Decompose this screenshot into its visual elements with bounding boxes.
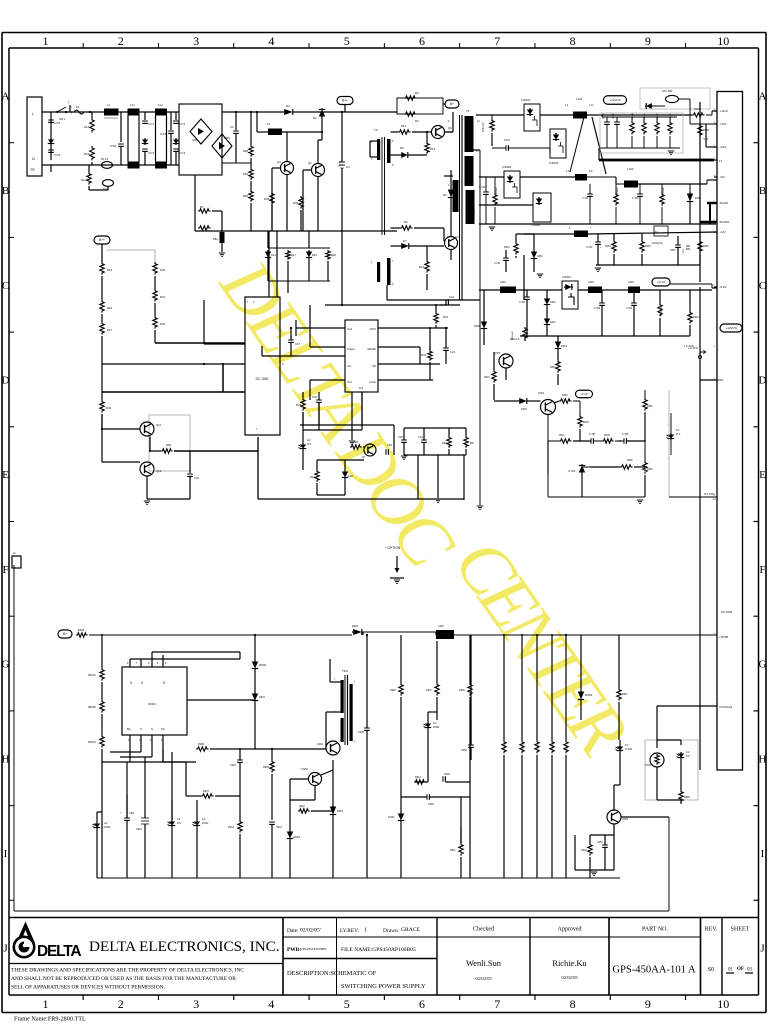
- svg-text:S0: S0: [708, 967, 714, 973]
- svg-text:R10: R10: [419, 265, 425, 269]
- svg-text:1: 1: [364, 928, 367, 934]
- svg-text:C 303: C 303: [594, 308, 601, 310]
- svg-text:R253: R253: [645, 245, 651, 248]
- svg-text:B: B: [2, 185, 9, 197]
- svg-text:SGND: SGND: [720, 201, 728, 205]
- svg-text:-12V: -12V: [720, 230, 726, 234]
- svg-text:Q2: Q2: [455, 235, 459, 239]
- svg-text:J: J: [760, 943, 765, 955]
- svg-text:R17: R17: [107, 328, 113, 332]
- svg-text:C21: C21: [449, 295, 455, 299]
- svg-text:C 304: C 304: [626, 308, 633, 310]
- svg-text:C/Y4: C/Y4: [179, 151, 186, 155]
- svg-text:DC-1982: DC-1982: [256, 377, 269, 381]
- svg-text:+12VCS: +12VCS: [609, 98, 620, 102]
- svg-text:4: 4: [268, 34, 274, 48]
- svg-text:D14: D14: [271, 253, 276, 257]
- svg-text:R828: R828: [684, 796, 690, 799]
- svg-text:Richie.Ku: Richie.Ku: [552, 959, 587, 968]
- svg-text:H: H: [2, 753, 10, 765]
- svg-text:IC251(1/2): IC251(1/2): [652, 243, 663, 245]
- svg-text:PE: PE: [31, 168, 35, 172]
- svg-text:R41: R41: [160, 295, 166, 299]
- svg-text:B+: B+: [63, 632, 67, 636]
- svg-text:9: 9: [645, 997, 651, 1011]
- svg-text:D7: D7: [403, 239, 407, 243]
- svg-text:IC 4: IC 4: [676, 433, 681, 436]
- svg-text:R33: R33: [442, 441, 447, 445]
- svg-text:D252: D252: [537, 255, 543, 258]
- svg-text:R905: R905: [263, 766, 270, 769]
- svg-text:C/R151: C/R151: [521, 98, 531, 102]
- svg-text:S: S: [151, 727, 153, 731]
- svg-text:ZD902: ZD902: [293, 836, 301, 839]
- svg-text:A: A: [2, 90, 10, 102]
- svg-text:DELTA ELECTRONICS, INC.: DELTA ELECTRONICS, INC.: [89, 938, 280, 955]
- svg-text:R956B: R956B: [523, 743, 525, 750]
- svg-text:D301: D301: [695, 196, 702, 200]
- svg-text:*: *: [600, 246, 601, 250]
- svg-text:R601: R601: [550, 366, 556, 369]
- svg-text:C/R1: C/R1: [192, 138, 198, 142]
- svg-text:D300: D300: [550, 302, 556, 304]
- svg-text:PART NO.: PART NO.: [642, 927, 668, 933]
- svg-text:IC2: IC2: [359, 386, 364, 390]
- svg-text:C 103: C 103: [582, 197, 589, 200]
- svg-text:R255: R255: [703, 245, 709, 248]
- svg-text:NTC 680: NTC 680: [662, 89, 673, 93]
- svg-text:IC904: IC904: [433, 726, 440, 729]
- svg-text:Bp: Bp: [127, 727, 131, 731]
- svg-text:+12V: +12V: [720, 122, 727, 126]
- svg-text:R4: R4: [404, 220, 408, 224]
- svg-text:B++: B++: [342, 99, 348, 103]
- svg-text:C 251: C 251: [494, 262, 501, 265]
- svg-text:C901: C901: [276, 826, 283, 829]
- svg-text:T901: T901: [342, 669, 348, 673]
- svg-text:F: F: [759, 564, 765, 576]
- svg-text:R906: R906: [198, 743, 205, 746]
- svg-text:D302: D302: [550, 322, 556, 324]
- svg-text:+3.3V: +3.3V: [657, 280, 665, 284]
- svg-text:L301: L301: [500, 280, 506, 284]
- svg-text:+5V1: +5V1: [720, 145, 727, 149]
- svg-text:Output: Output: [347, 347, 355, 351]
- svg-text:C/R001: C/R001: [502, 165, 512, 169]
- svg-text:C259: C259: [683, 248, 685, 254]
- svg-text:R152A: R152A: [631, 113, 634, 120]
- svg-text:C 301: C 301: [519, 302, 526, 304]
- svg-text:C25: C25: [387, 443, 392, 447]
- svg-text:C/R301: C/R301: [562, 275, 571, 279]
- svg-text:02/02/05: 02/02/05: [561, 975, 578, 980]
- svg-text:7: 7: [494, 34, 500, 48]
- svg-text:4: 4: [268, 997, 274, 1011]
- svg-text:SGND1: SGND1: [720, 220, 730, 224]
- svg-text:R904: R904: [228, 826, 235, 829]
- svg-text:R152D: R152D: [644, 113, 646, 120]
- svg-text:G: G: [2, 659, 10, 671]
- svg-text:+12VCS: +12VCS: [726, 326, 737, 330]
- svg-text:IC5: IC5: [177, 822, 181, 825]
- svg-text:R1A: R1A: [84, 125, 90, 129]
- svg-text:FL1: FL1: [130, 103, 135, 107]
- svg-text:G: G: [759, 659, 767, 671]
- svg-text:R911: R911: [450, 849, 456, 852]
- svg-text:R40: R40: [160, 322, 166, 326]
- svg-text:+3.2V: +3.2V: [580, 392, 588, 396]
- svg-text:C24: C24: [418, 435, 423, 439]
- svg-text:IC 902: IC 902: [625, 748, 633, 751]
- svg-text:FILE NAME:GPS450AP100B05: FILE NAME:GPS450AP100B05: [341, 947, 416, 953]
- svg-text:Checked: Checked: [473, 927, 494, 933]
- svg-text:Q11: Q11: [156, 423, 162, 427]
- svg-text:R957: R957: [622, 693, 628, 696]
- svg-text:D1: D1: [286, 104, 290, 108]
- svg-text:L2: L2: [267, 122, 271, 126]
- svg-text:R81: R81: [243, 172, 249, 176]
- svg-text:R902C: R902C: [88, 741, 96, 744]
- svg-text:C: C: [759, 280, 766, 292]
- svg-text:IC5: IC5: [686, 755, 690, 758]
- svg-text:L102: L102: [627, 167, 634, 171]
- svg-text:D16: D16: [312, 253, 317, 257]
- svg-text:R907: R907: [203, 790, 210, 793]
- svg-text:R32: R32: [421, 353, 427, 357]
- svg-text:9: 9: [645, 34, 651, 48]
- svg-text:R005: R005: [604, 434, 610, 437]
- svg-text:R24: R24: [310, 475, 315, 479]
- svg-text:Q951: Q951: [622, 818, 629, 821]
- svg-text:F: F: [2, 564, 8, 576]
- svg-text:S: S: [141, 681, 143, 685]
- svg-text:Date:: Date:: [287, 928, 299, 934]
- svg-text:R12: R12: [401, 124, 407, 128]
- svg-text:C151: C151: [504, 139, 511, 142]
- svg-text:SHEET: SHEET: [731, 927, 750, 933]
- svg-text:L901: L901: [438, 624, 444, 628]
- svg-text:D: D: [759, 374, 767, 386]
- svg-text:9601: 9601: [718, 378, 724, 382]
- svg-text:R49: R49: [106, 406, 112, 410]
- svg-text:R31: R31: [443, 315, 449, 319]
- svg-text:IC4: IC4: [307, 442, 312, 446]
- svg-text:Approved: Approved: [558, 927, 582, 933]
- svg-text:-5.5V: -5.5V: [720, 285, 727, 289]
- svg-text:D304: D304: [474, 325, 480, 328]
- svg-text:SENSE: SENSE: [367, 347, 376, 351]
- svg-text:SW 1: SW 1: [59, 117, 66, 121]
- svg-text:R004: R004: [583, 421, 589, 424]
- svg-text:R7: R7: [200, 205, 204, 209]
- svg-text:ICTOPGN2: ICTOPGN2: [719, 705, 733, 709]
- svg-text:R3: R3: [415, 119, 419, 123]
- svg-text:C 305: C 305: [589, 433, 596, 436]
- svg-text:C 306: C 306: [622, 433, 629, 436]
- svg-text:C 252: C 252: [586, 246, 593, 249]
- svg-text:D601: D601: [561, 345, 567, 348]
- svg-text:J: J: [3, 943, 8, 955]
- svg-text:1 U/2: 1 U/2: [474, 209, 476, 215]
- svg-text:IC902: IC902: [202, 822, 209, 825]
- svg-text:R910: R910: [78, 628, 85, 632]
- svg-text:IN-: IN-: [655, 231, 658, 234]
- svg-text:IC903: IC903: [388, 816, 395, 819]
- svg-text:R13: R13: [430, 147, 436, 151]
- svg-text:SWITCHING POWER SUPPLY: SWITCHING POWER SUPPLY: [341, 983, 426, 990]
- svg-text:L: L: [32, 112, 34, 116]
- svg-text:C963: C963: [461, 749, 467, 752]
- svg-text:Q901: Q901: [317, 743, 324, 746]
- svg-text:C22: C22: [450, 350, 456, 354]
- svg-text:R1B: R1B: [84, 152, 90, 156]
- svg-text:GPS-450AA-101 A: GPS-450AA-101 A: [612, 965, 696, 976]
- svg-text:R308: R308: [647, 406, 653, 408]
- svg-text:OF: OF: [737, 967, 744, 972]
- svg-text:T2: T2: [374, 128, 378, 132]
- svg-text:R960: R960: [581, 849, 587, 852]
- svg-text:Comp: Comp: [369, 380, 376, 384]
- svg-text:C: C: [2, 280, 9, 292]
- svg-text:C/X3: C/X3: [160, 132, 167, 136]
- svg-text:R15: R15: [107, 268, 113, 272]
- svg-text:D901: D901: [259, 696, 266, 699]
- svg-text:D5: D5: [400, 146, 404, 150]
- svg-text:2: 2: [118, 997, 124, 1011]
- svg-text:R16: R16: [107, 306, 113, 310]
- svg-text:SELL OF APPARATUSES OR DEVICES: SELL OF APPARATUSES OR DEVICES WITHOUT P…: [11, 985, 165, 991]
- svg-text:ZD952: ZD952: [585, 694, 593, 697]
- svg-text:R300A-D: R300A-D: [660, 307, 663, 316]
- svg-text:C153: C153: [603, 113, 605, 119]
- svg-text:D2: D2: [313, 116, 317, 120]
- svg-text:L302: L302: [588, 280, 594, 284]
- svg-text:R910: R910: [299, 805, 305, 808]
- svg-text:R309: R309: [647, 469, 653, 471]
- svg-text:R152D: R152D: [670, 113, 672, 120]
- svg-text:C/R152: C/R152: [549, 161, 559, 165]
- svg-text:R908: R908: [390, 689, 396, 692]
- svg-text:C/Y5: C/Y5: [54, 121, 61, 125]
- svg-text:Q4: Q4: [448, 126, 452, 130]
- svg-text:C902: C902: [230, 764, 237, 767]
- svg-text:6: 6: [419, 34, 425, 48]
- svg-text:D: D: [2, 374, 10, 386]
- svg-text:1/2: 1/2: [307, 438, 311, 442]
- svg-text:C31: C31: [194, 476, 200, 480]
- svg-text:FB1: FB1: [213, 237, 218, 241]
- svg-text:C3: C3: [230, 125, 234, 129]
- svg-text:R956D: R956D: [553, 743, 555, 750]
- svg-text:R306: R306: [627, 460, 633, 462]
- svg-text:1: 1: [43, 34, 49, 48]
- svg-text:L1: L1: [107, 103, 111, 107]
- svg-text:R310: R310: [693, 316, 699, 319]
- svg-text:R907: R907: [426, 689, 432, 692]
- svg-text:R959: R959: [567, 744, 569, 750]
- svg-text:B: B: [759, 185, 766, 197]
- svg-text:R007: R007: [484, 376, 490, 379]
- svg-text:B+: B+: [450, 102, 454, 106]
- svg-text:C152: C152: [613, 113, 615, 119]
- svg-text:C911: C911: [129, 812, 135, 815]
- svg-text:C18: C18: [398, 435, 403, 439]
- svg-text:R152C: R152C: [657, 113, 659, 120]
- svg-text:D305: D305: [521, 408, 527, 411]
- svg-text:NTC1: NTC1: [101, 157, 109, 161]
- svg-text:Rt/Ct: Rt/Ct: [370, 327, 376, 331]
- svg-text:R25: R25: [296, 403, 302, 407]
- svg-text:REV.: REV.: [705, 927, 718, 933]
- svg-text:6: 6: [419, 997, 425, 1011]
- svg-text:C17: C17: [295, 342, 301, 346]
- svg-text:R251: R251: [504, 246, 510, 249]
- svg-text:Vfb: Vfb: [372, 364, 376, 368]
- svg-text:+3.3VS: +3.3VS: [684, 344, 694, 348]
- svg-text:C20: C20: [312, 395, 318, 399]
- svg-text:R902B: R902B: [88, 706, 96, 709]
- svg-text:C/X2: C/X2: [110, 144, 117, 148]
- svg-text:3: 3: [193, 34, 199, 48]
- svg-text:R912: R912: [415, 776, 421, 779]
- svg-text:+12V2: +12V2: [720, 109, 729, 113]
- svg-text:R902A: R902A: [88, 674, 96, 677]
- svg-text:C/R2: C/R2: [224, 136, 230, 140]
- svg-text:B++: B++: [99, 238, 105, 242]
- svg-text:R82: R82: [243, 194, 249, 198]
- svg-text:6,: 6,: [148, 662, 150, 665]
- svg-text:RT05: RT05: [645, 764, 651, 767]
- svg-text:C 10A: C 10A: [632, 197, 639, 200]
- svg-text:T1: T1: [466, 109, 470, 113]
- svg-text:D903: D903: [352, 624, 359, 628]
- svg-text:5,: 5,: [157, 662, 159, 665]
- svg-text:S: S: [140, 727, 142, 731]
- svg-text:* OPTION: * OPTION: [385, 546, 401, 550]
- svg-text:S: S: [130, 681, 132, 685]
- svg-text:L101: L101: [576, 97, 583, 101]
- svg-text:7: 7: [494, 997, 500, 1011]
- svg-text:P1: P1: [76, 105, 80, 109]
- svg-text:02/02/05': 02/02/05': [300, 928, 321, 934]
- svg-text:R8: R8: [470, 441, 474, 445]
- svg-text:E: E: [759, 469, 766, 481]
- svg-text:I: I: [761, 848, 765, 860]
- svg-text:C908: C908: [444, 773, 450, 776]
- svg-text:1,12: 1,12: [589, 105, 594, 107]
- svg-text:* Q903: * Q903: [300, 768, 308, 771]
- svg-text:A: A: [759, 90, 767, 102]
- svg-text:Q7: Q7: [362, 455, 366, 459]
- svg-text:C253: C253: [670, 250, 676, 252]
- svg-text:R42: R42: [160, 268, 166, 272]
- svg-text:N: N: [32, 157, 35, 161]
- svg-text:THESE DRAWINGS AND SPECIFICATI: THESE DRAWINGS AND SPECIFICATIONS ARE TH…: [11, 968, 244, 974]
- svg-text:I: I: [4, 848, 8, 860]
- svg-text:C905: C905: [358, 731, 365, 734]
- svg-text:5: 5: [344, 34, 350, 48]
- svg-text:DESCRIPTION:SCHEMATIC OF: DESCRIPTION:SCHEMATIC OF: [287, 970, 377, 977]
- svg-text:R45: R45: [264, 197, 270, 201]
- svg-text:IC 301: IC 301: [568, 470, 576, 473]
- svg-text:L303: L303: [628, 280, 634, 284]
- svg-text:R011: R011: [559, 434, 565, 437]
- svg-text:03: 03: [747, 968, 753, 973]
- svg-text:C/Y3: C/Y3: [179, 122, 186, 126]
- svg-text:R46: R46: [293, 201, 299, 205]
- svg-text:02/02/05: 02/02/05: [475, 976, 492, 981]
- svg-text:R909: R909: [459, 689, 465, 692]
- svg-text:Drawn:: Drawn:: [383, 928, 400, 934]
- svg-text:R48: R48: [331, 253, 336, 257]
- svg-text:DC-1083: DC-1083: [721, 610, 733, 614]
- svg-text:8: 8: [570, 997, 576, 1011]
- svg-text:H: H: [759, 753, 767, 765]
- svg-text:R956C: R956C: [538, 743, 540, 750]
- svg-text:AND SHALL NOT BE REPRODUCED OR: AND SHALL NOT BE REPRODUCED OR USED AS T…: [11, 976, 236, 982]
- svg-text:D3: D3: [443, 193, 447, 197]
- svg-text:R50: R50: [166, 443, 172, 447]
- svg-text:D18: D18: [348, 474, 353, 478]
- svg-text:2: 2: [118, 34, 124, 48]
- svg-text:C/Y2: C/Y2: [148, 151, 155, 155]
- svg-text:R28: R28: [353, 440, 358, 444]
- svg-text:+5VSB: +5VSB: [719, 635, 728, 639]
- svg-text:Q12: Q12: [156, 469, 162, 473]
- svg-text:C959: C959: [597, 841, 603, 844]
- svg-text:D902: D902: [337, 810, 344, 813]
- svg-text:GPS450AP100B05: GPS450AP100B05: [300, 947, 327, 951]
- svg-text:R47: R47: [291, 253, 296, 257]
- svg-text:R956A: R956A: [504, 743, 507, 750]
- svg-text:Gnd: Gnd: [347, 327, 352, 331]
- svg-text:E: E: [2, 469, 9, 481]
- svg-text:1: 1: [43, 997, 49, 1011]
- svg-text:Vref: Vref: [347, 380, 352, 384]
- svg-text:Vcc: Vcc: [347, 364, 352, 368]
- svg-text:C/Y6: C/Y6: [54, 153, 61, 157]
- svg-text:8: 8: [570, 34, 576, 48]
- svg-text:C1: C1: [346, 165, 350, 169]
- svg-text:LY.REV:: LY.REV:: [340, 928, 360, 934]
- svg-text:10: 10: [717, 34, 729, 48]
- svg-text:R151A-D: R151A-D: [482, 122, 485, 132]
- svg-text:+5V: +5V: [720, 175, 725, 179]
- svg-text:Q302: Q302: [494, 352, 501, 355]
- svg-text:C/Y1: C/Y1: [148, 122, 155, 126]
- svg-text:DELTA: DELTA: [37, 943, 81, 960]
- svg-text:R2: R2: [415, 91, 419, 95]
- svg-text:C909: C909: [428, 803, 434, 806]
- svg-text:Q301: Q301: [538, 392, 545, 395]
- svg-text:IC901: IC901: [148, 702, 156, 706]
- svg-text:IC904: IC904: [104, 826, 111, 829]
- svg-text:ZD901: ZD901: [259, 664, 267, 667]
- svg-text:R80: R80: [243, 149, 249, 153]
- svg-text:R001A-D: R001A-D: [510, 338, 520, 341]
- svg-text:01: 01: [728, 968, 734, 973]
- svg-text:Q1: Q1: [308, 161, 312, 165]
- svg-text:GRACE: GRACE: [401, 927, 421, 933]
- svg-text:10: 10: [717, 997, 729, 1011]
- svg-text:3: 3: [193, 997, 199, 1011]
- svg-text:Frame Name:FR9-2800.TTL: Frame Name:FR9-2800.TTL: [14, 1016, 86, 1023]
- svg-text:Wenli.Sun: Wenli.Sun: [466, 959, 502, 968]
- svg-text:FL2: FL2: [158, 103, 163, 107]
- svg-text:5: 5: [344, 997, 350, 1011]
- svg-text:R254: R254: [605, 245, 611, 248]
- svg-text:C910: C910: [136, 828, 142, 831]
